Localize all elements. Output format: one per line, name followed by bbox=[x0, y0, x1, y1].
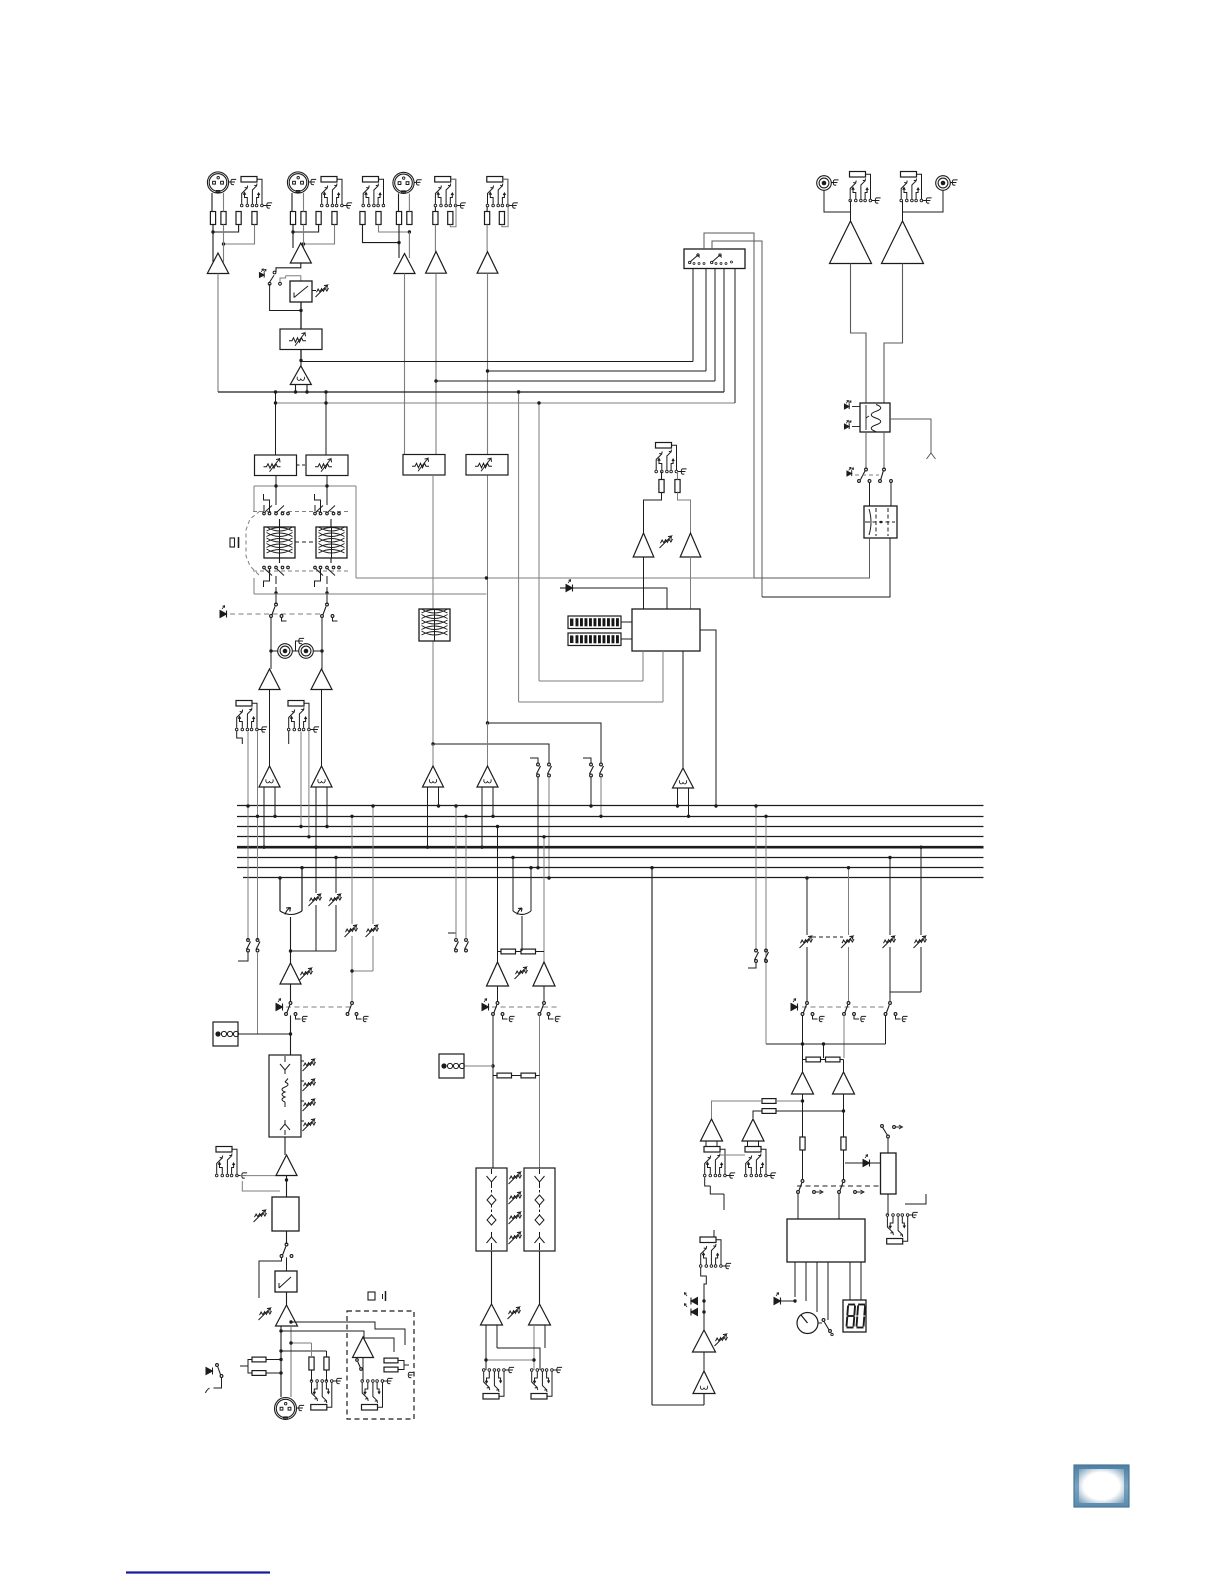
fader pots bbox=[304, 1062, 316, 1066]
wire bbox=[433, 744, 549, 764]
clock pot bbox=[797, 1313, 818, 1334]
switch SW2 bbox=[285, 1243, 288, 1246]
RCA phono L bbox=[817, 176, 832, 191]
wire bbox=[404, 274, 406, 455]
switch SW4 bbox=[356, 1359, 359, 1362]
dashed box bbox=[347, 1311, 414, 1419]
wire bbox=[486, 225, 488, 252]
EQ dash top bbox=[253, 511, 350, 513]
sw A1 bbox=[806, 1002, 809, 1005]
legs 4 bbox=[482, 787, 493, 847]
wire bbox=[590, 777, 592, 806]
switch SWx2 bbox=[883, 468, 886, 471]
wire riser2 bbox=[705, 268, 707, 371]
wire bypass2 bbox=[259, 1257, 282, 1298]
wire bbox=[644, 493, 662, 534]
wire bus-h3 bbox=[436, 380, 715, 382]
legs 3 bbox=[428, 787, 439, 847]
resistor R6 bbox=[301, 212, 306, 225]
wire bbox=[286, 1257, 288, 1271]
jack J13 bbox=[311, 1405, 327, 1411]
wire bbox=[485, 1325, 487, 1370]
wire bus-h4 bbox=[218, 391, 724, 393]
wire bbox=[363, 225, 400, 243]
wire bbox=[213, 225, 239, 233]
wire bbox=[238, 1033, 291, 1035]
amp UA bbox=[259, 669, 280, 690]
XLR connector J3 bbox=[393, 172, 414, 193]
wire bbox=[435, 273, 437, 455]
wire bbox=[865, 432, 867, 469]
wire bbox=[211, 193, 213, 212]
amp U19 bbox=[529, 1304, 551, 1325]
bus L2 bbox=[237, 816, 984, 818]
resistor R20 bbox=[252, 1371, 266, 1376]
switch SW3 bbox=[216, 1364, 219, 1367]
resistor R31 bbox=[800, 1137, 805, 1150]
trim box 1 bbox=[255, 455, 297, 476]
bargraph meter 1 bbox=[568, 616, 621, 629]
resistor R1 bbox=[210, 212, 215, 225]
wire bbox=[661, 472, 663, 480]
resistor R23 bbox=[384, 1358, 398, 1363]
wire bbox=[755, 806, 757, 950]
wire bbox=[238, 952, 248, 961]
osc box bbox=[860, 403, 890, 432]
fader box F2 bbox=[476, 1168, 507, 1251]
wire bbox=[432, 641, 434, 744]
wire osc-out bbox=[890, 419, 931, 453]
dash row bbox=[230, 613, 322, 615]
fader box F3 bbox=[524, 1168, 555, 1251]
jack J1B bbox=[241, 177, 257, 183]
wire bbox=[802, 1044, 804, 1072]
wire bbox=[315, 905, 317, 951]
RCA phono R bbox=[936, 176, 951, 191]
LED D7 bbox=[276, 1004, 283, 1011]
amp U20 bbox=[792, 1072, 814, 1094]
jack J8 bbox=[656, 443, 672, 449]
wire bbox=[643, 557, 645, 609]
wire bbox=[290, 951, 292, 963]
wire bbox=[398, 225, 400, 259]
wire bbox=[311, 1370, 313, 1381]
wire legs bbox=[678, 788, 689, 816]
wire bbox=[279, 519, 281, 527]
wire bbox=[280, 1326, 282, 1397]
wire bbox=[432, 475, 434, 609]
wire bbox=[290, 1015, 292, 1055]
LED D6 bbox=[220, 611, 227, 618]
wire bbox=[497, 986, 499, 1002]
wire cross bbox=[497, 1348, 540, 1370]
resistor R5 bbox=[290, 212, 295, 225]
tape out L bbox=[278, 644, 293, 659]
contact bbox=[868, 480, 871, 483]
jack J14 bbox=[362, 1405, 378, 1411]
wire legs bbox=[296, 385, 308, 393]
wire bbox=[802, 1150, 804, 1180]
wire bbox=[276, 587, 327, 604]
wire bbox=[827, 1262, 829, 1320]
seven-seg display bbox=[843, 1300, 866, 1332]
op-amp U1 bbox=[207, 253, 228, 274]
wire comp-link bbox=[312, 290, 316, 292]
resistor R4 bbox=[252, 212, 257, 225]
wire U2-left bbox=[512, 858, 514, 912]
wire bbox=[257, 732, 259, 941]
wire merge bbox=[291, 950, 337, 952]
wire bbox=[905, 1194, 926, 1204]
EQ switch row top B bbox=[314, 505, 316, 511]
bus L6 bbox=[237, 857, 984, 859]
amp U21 bbox=[833, 1072, 855, 1094]
wire drop B bbox=[325, 392, 327, 455]
wire legs bbox=[706, 1141, 759, 1147]
wire bbox=[286, 1176, 288, 1198]
LED D8 bbox=[206, 1368, 213, 1375]
wire bbox=[240, 1360, 252, 1374]
phones sym bbox=[927, 452, 936, 460]
resistor R12 bbox=[407, 212, 412, 225]
resistor R13 bbox=[433, 212, 438, 225]
wire bbox=[884, 264, 903, 404]
wire seltop2 bbox=[712, 241, 762, 597]
jack J19 bbox=[700, 1237, 716, 1243]
potentiometer P-comp bbox=[317, 288, 329, 292]
VCA amp U3 bbox=[290, 366, 311, 385]
wire seltop1 bbox=[704, 233, 754, 578]
phones sym2 bbox=[368, 1292, 375, 1300]
VCA 4 bbox=[477, 766, 498, 787]
monitor amp U8 bbox=[882, 221, 924, 264]
wire main-drop bbox=[651, 868, 653, 1405]
transistor Q1 bbox=[280, 908, 302, 915]
wire bbox=[434, 225, 436, 252]
resistor R33 bbox=[762, 1099, 776, 1104]
VCA U11 bbox=[673, 768, 694, 788]
wire bbox=[573, 588, 668, 609]
wire h1044 bbox=[766, 1043, 886, 1045]
selector box SB1 bbox=[684, 249, 745, 269]
bus L1 bbox=[237, 805, 984, 807]
switch SW6 bbox=[881, 1125, 884, 1128]
tape out R bbox=[299, 644, 314, 659]
resistor R17 bbox=[659, 480, 664, 493]
amp U10 bbox=[680, 533, 701, 557]
LED D1 bbox=[259, 273, 264, 278]
resistor R18 bbox=[675, 480, 680, 493]
wire riser5 bbox=[734, 268, 736, 403]
pot P8 bbox=[255, 1213, 267, 1217]
wire stubs bbox=[301, 1061, 304, 1121]
wire riser3 bbox=[714, 268, 716, 381]
switch pair E bbox=[755, 949, 758, 952]
wire xf-l bbox=[754, 538, 870, 578]
EQ switch row bot A bbox=[263, 566, 266, 569]
wire bbox=[304, 225, 335, 245]
mute M4 bbox=[543, 1002, 546, 1005]
wire h-mon1 bbox=[539, 680, 643, 682]
wire bbox=[290, 917, 292, 951]
resistor R14 bbox=[448, 212, 453, 225]
bus L4 bbox=[237, 836, 984, 838]
LED D14 bbox=[863, 1160, 870, 1167]
VCA B bbox=[311, 766, 332, 787]
bus L5 main bbox=[237, 846, 984, 849]
wire bbox=[247, 732, 249, 941]
pot P7 bbox=[367, 928, 379, 932]
wire bbox=[362, 1358, 364, 1382]
wire bbox=[292, 225, 294, 249]
wire bbox=[887, 1194, 889, 1215]
switch SW-PAD bbox=[273, 271, 276, 274]
EQ switch row top A bbox=[263, 505, 265, 511]
op-amp U5 bbox=[426, 252, 447, 274]
wire bbox=[293, 225, 319, 233]
wire bbox=[869, 482, 871, 506]
amp U12 bbox=[280, 963, 301, 984]
wire bbox=[903, 191, 944, 222]
wire bbox=[487, 273, 489, 455]
amp U17 bbox=[533, 962, 555, 986]
fx box bbox=[419, 609, 450, 641]
wire hookright bbox=[450, 179, 456, 227]
wire bbox=[464, 1065, 493, 1067]
resistor R11 bbox=[396, 212, 401, 225]
wire riser4 bbox=[723, 268, 725, 392]
wire bbox=[288, 731, 290, 744]
XLR out J12 bbox=[275, 1398, 297, 1420]
XLR connector J2 bbox=[287, 172, 308, 193]
wire bbox=[212, 258, 214, 262]
switch contact bbox=[279, 282, 282, 285]
compressor box bbox=[290, 281, 312, 302]
clip box bbox=[275, 1271, 297, 1292]
bargraph meter 2 bbox=[568, 633, 621, 646]
wire bbox=[308, 732, 310, 837]
wire bbox=[806, 878, 808, 935]
wire h-mon2 bbox=[519, 701, 663, 703]
wire bbox=[300, 361, 302, 366]
wire bbox=[703, 1352, 705, 1371]
resistor R25 bbox=[501, 949, 516, 954]
resistor R9 bbox=[360, 212, 365, 225]
resistor R15 bbox=[485, 212, 490, 225]
meter box bbox=[632, 609, 700, 651]
legs B bbox=[316, 787, 327, 847]
bus L8 bbox=[243, 877, 984, 879]
link dash bbox=[297, 464, 307, 466]
resistor R8 bbox=[332, 212, 337, 225]
wire bbox=[806, 947, 808, 1002]
switch pair B bbox=[590, 763, 593, 766]
resistor R22 bbox=[324, 1357, 329, 1370]
wire bbox=[701, 1268, 707, 1296]
wire bus-h2 bbox=[488, 370, 707, 372]
wire bbox=[351, 936, 353, 1002]
jack J17 bbox=[704, 1147, 720, 1153]
VCA U25 bbox=[693, 1371, 715, 1394]
wire bypass bbox=[270, 284, 301, 311]
resistor R34 bbox=[762, 1109, 776, 1114]
LED D3 bbox=[844, 424, 849, 429]
pot P10 bbox=[516, 970, 528, 974]
wire bbox=[286, 1292, 288, 1305]
trim box 2 bbox=[306, 455, 348, 476]
op-amp U4 bbox=[394, 254, 415, 274]
switch pair D bbox=[455, 939, 458, 942]
wire bbox=[270, 651, 272, 669]
pot P6 bbox=[346, 928, 358, 932]
LED D4 bbox=[847, 471, 852, 476]
amp U18 bbox=[481, 1304, 503, 1325]
wire bbox=[538, 403, 540, 681]
wire riser1 bbox=[692, 268, 694, 362]
wire bbox=[652, 1404, 704, 1406]
wire bbox=[703, 1296, 705, 1330]
LED D13 bbox=[691, 1309, 698, 1316]
LED ind box 2 bbox=[439, 1054, 464, 1078]
resistor R32 bbox=[841, 1137, 846, 1150]
wire bbox=[824, 191, 851, 222]
wire bbox=[492, 1015, 494, 1168]
mute switch M2 bbox=[351, 1002, 354, 1005]
gain pot box bbox=[280, 329, 322, 350]
wire dash bbox=[855, 474, 879, 476]
wire bbox=[286, 1231, 288, 1244]
jack J15 bbox=[483, 1394, 499, 1400]
wire bbox=[398, 1361, 409, 1370]
wire U2-right bbox=[530, 868, 532, 911]
aux pots 2 bbox=[884, 939, 896, 943]
wire bbox=[537, 777, 539, 868]
wire bbox=[720, 1154, 745, 1156]
wire bbox=[311, 1343, 313, 1357]
op-amp U2 bbox=[290, 243, 311, 263]
wire bbox=[290, 984, 292, 1002]
switch SB bbox=[326, 603, 329, 606]
jack J20 bbox=[887, 1239, 903, 1245]
wire bbox=[794, 1262, 796, 1297]
xfader bbox=[881, 1153, 897, 1194]
wire bbox=[398, 194, 400, 212]
amp U16 bbox=[487, 962, 509, 986]
wire bbox=[217, 274, 219, 393]
fader pots 2 bbox=[510, 1175, 522, 1179]
dash row bbox=[802, 1006, 886, 1008]
jack J3B bbox=[363, 177, 379, 183]
pot P4 bbox=[330, 897, 342, 901]
wire bbox=[300, 732, 302, 827]
EQ inductor box B bbox=[316, 527, 347, 558]
wire bbox=[487, 476, 489, 724]
wire bbox=[889, 947, 891, 1001]
VCA 3 bbox=[423, 766, 444, 787]
wire bbox=[300, 302, 302, 310]
dash row bbox=[492, 1006, 558, 1008]
dash bbox=[812, 936, 843, 938]
wire bbox=[351, 816, 353, 924]
dashed frame bbox=[246, 511, 260, 576]
amp U22 bbox=[701, 1119, 723, 1141]
dash row2 bbox=[797, 1185, 881, 1187]
aux pots bbox=[801, 939, 813, 943]
footer rule bbox=[126, 1571, 270, 1573]
pot P9 bbox=[260, 1311, 272, 1315]
wire bbox=[498, 951, 502, 953]
wire bbox=[237, 1176, 287, 1191]
jack J11 bbox=[216, 1147, 232, 1153]
jack J2B bbox=[321, 177, 337, 183]
sw A3 bbox=[889, 1002, 892, 1005]
link dash bbox=[295, 541, 316, 543]
wire bbox=[705, 1177, 724, 1237]
wire bbox=[488, 723, 602, 763]
wire bbox=[212, 225, 214, 259]
wire bbox=[291, 193, 293, 212]
resistor R10 bbox=[376, 212, 381, 225]
resistor R2 bbox=[221, 212, 226, 225]
resistor R3 bbox=[236, 212, 241, 225]
switch pair C bbox=[247, 939, 250, 942]
LED D2 bbox=[844, 404, 849, 409]
switch pair A bbox=[537, 763, 540, 766]
wire bbox=[271, 650, 278, 652]
wire xf-r bbox=[762, 538, 890, 597]
LED D9 bbox=[482, 1004, 489, 1011]
wire bbox=[269, 690, 271, 767]
jack J4 bbox=[435, 177, 451, 183]
resistor R30 bbox=[826, 1057, 841, 1062]
switch SW5 bbox=[822, 1319, 825, 1322]
wire bbox=[765, 816, 767, 1044]
wire bbox=[491, 1251, 493, 1304]
wire bbox=[642, 651, 644, 681]
wire bbox=[284, 1137, 286, 1155]
wire bus-h5 bbox=[276, 402, 736, 404]
LED D10 bbox=[791, 1004, 798, 1011]
wire eq-top-loop bbox=[254, 485, 356, 487]
bus L7 bbox=[237, 867, 984, 869]
amp U9 bbox=[633, 533, 654, 557]
gnd mid bbox=[296, 641, 300, 651]
wire U-left bbox=[279, 878, 281, 911]
wire bbox=[700, 630, 716, 806]
jack J10 bbox=[288, 701, 304, 707]
monitor amp U7 bbox=[830, 221, 872, 264]
potentiometer P2 bbox=[661, 539, 673, 543]
resistor R26 bbox=[521, 949, 536, 954]
dash row bbox=[286, 1006, 352, 1008]
wire bbox=[315, 847, 317, 893]
jack J6 bbox=[850, 172, 866, 178]
resistor R21 bbox=[309, 1357, 314, 1370]
wire bbox=[224, 225, 255, 245]
LED D12 bbox=[691, 1298, 698, 1305]
wire bbox=[521, 916, 523, 951]
resistor R28 bbox=[521, 1073, 536, 1078]
mute M3 bbox=[496, 1002, 499, 1005]
wire eqout-h bbox=[254, 593, 486, 595]
wire bbox=[455, 806, 457, 939]
wire bbox=[712, 1101, 763, 1118]
jack J16 bbox=[531, 1394, 547, 1400]
legs A bbox=[264, 787, 275, 847]
wire bbox=[257, 952, 259, 1034]
EQ inductor box A bbox=[264, 527, 295, 558]
wire bbox=[497, 827, 499, 963]
